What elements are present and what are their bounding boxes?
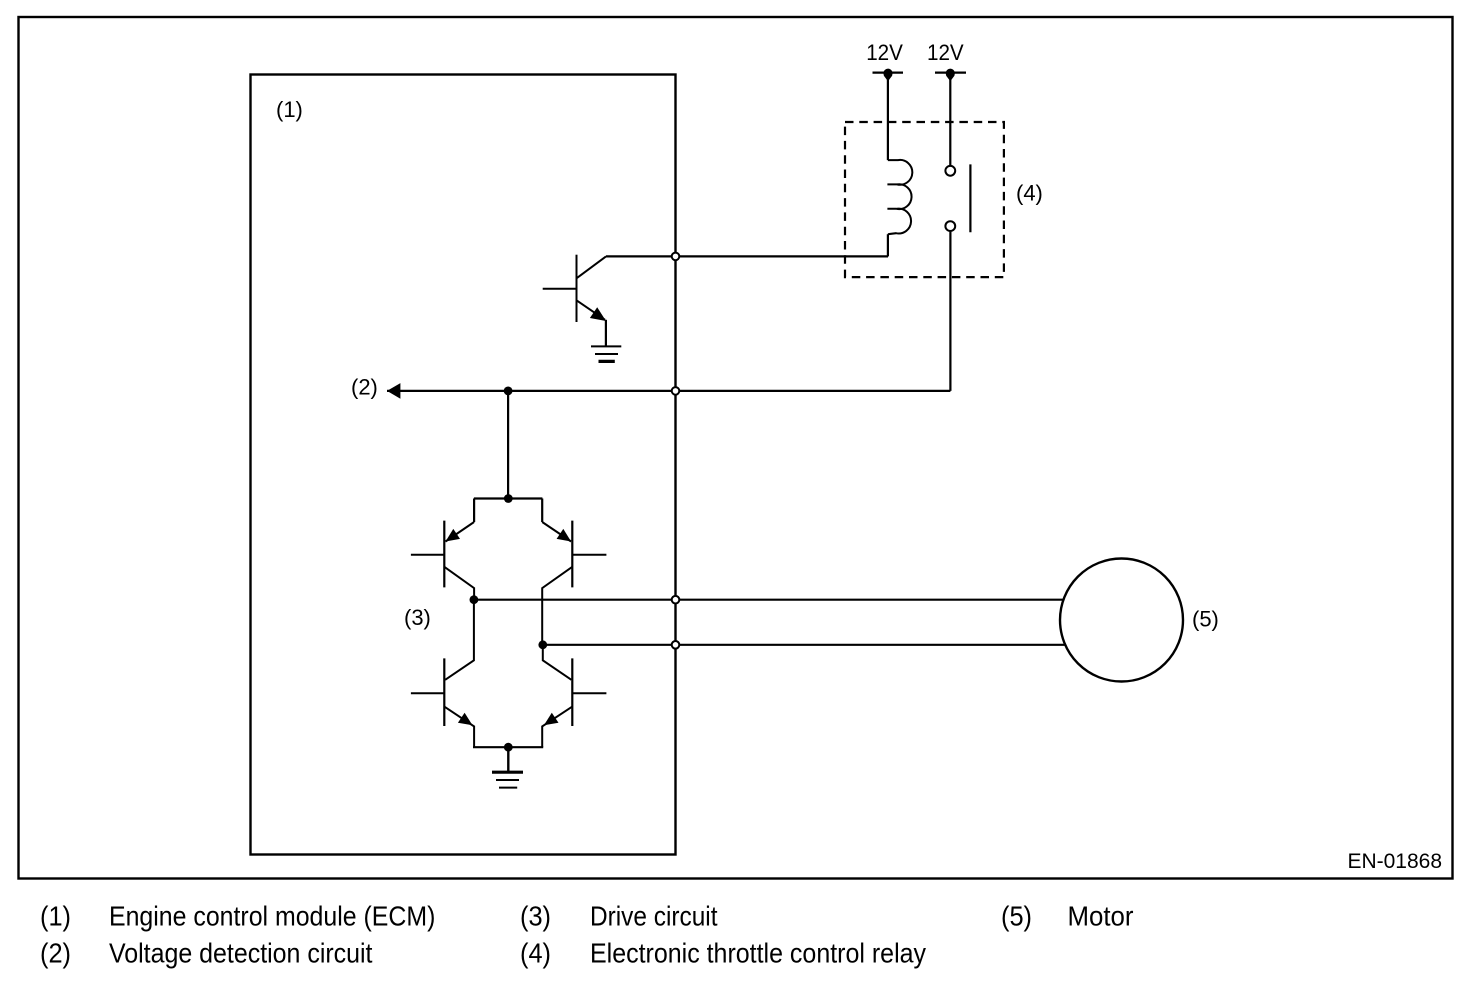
svg-text:(1): (1) xyxy=(276,97,303,122)
svg-text:(5): (5) xyxy=(1001,901,1032,932)
svg-text:(2): (2) xyxy=(351,375,378,400)
svg-text:(1): (1) xyxy=(40,901,71,932)
svg-text:Electronic throttle control re: Electronic throttle control relay xyxy=(590,938,926,969)
svg-text:Motor: Motor xyxy=(1068,901,1134,932)
svg-text:Drive circuit: Drive circuit xyxy=(590,901,718,932)
svg-text:Voltage detection circuit: Voltage detection circuit xyxy=(109,938,373,969)
svg-text:(4): (4) xyxy=(1016,181,1043,206)
svg-text:(3): (3) xyxy=(520,901,551,932)
svg-text:12V: 12V xyxy=(927,40,964,65)
svg-text:(4): (4) xyxy=(520,938,551,969)
svg-text:EN-01868: EN-01868 xyxy=(1347,850,1442,873)
svg-text:(2): (2) xyxy=(40,938,71,969)
svg-text:Engine control module (ECM): Engine control module (ECM) xyxy=(109,901,435,932)
svg-text:12V: 12V xyxy=(866,40,903,65)
svg-text:(3): (3) xyxy=(404,605,431,630)
svg-text:(5): (5) xyxy=(1192,606,1219,631)
